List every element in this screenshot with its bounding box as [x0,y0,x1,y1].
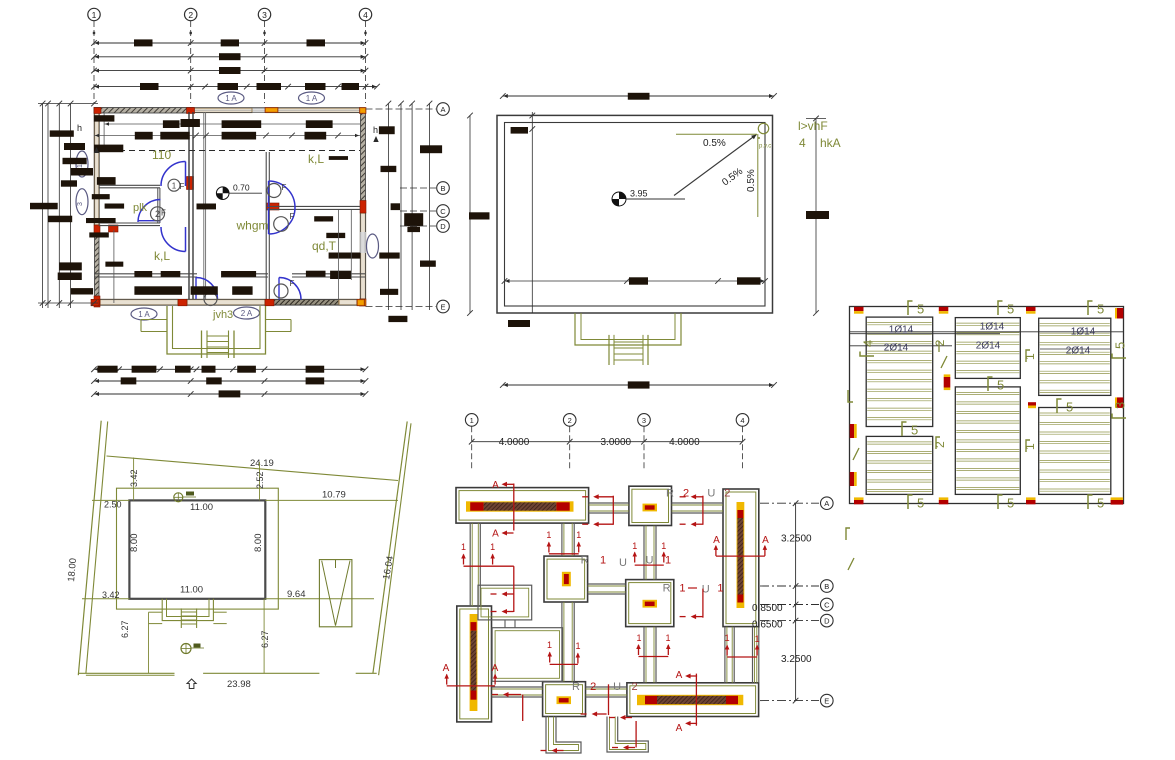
svg-text:1Ø14: 1Ø14 [889,325,914,336]
fnd dim line [472,441,743,443]
strip F1-F2 [589,502,629,504]
fnd grid bubble B [760,585,819,587]
red elbow arrows right of F1 [612,496,614,525]
footing F5 marker [643,600,658,608]
door arc bottom1 [196,278,218,300]
svg-text:U: U [619,557,627,569]
svg-text:16.04: 16.04 [381,555,396,580]
tail arrows [554,750,564,752]
svg-text:11.00: 11.00 [190,502,213,513]
plot boundary right [373,421,407,673]
fnd grid bubble 3 [638,414,651,427]
svg-text:1: 1 [576,530,581,540]
footing F2 marker [643,504,658,512]
arrow bottom mid [608,684,610,715]
svg-text:9.64: 9.64 [287,589,306,600]
svg-text:h: h [373,125,378,135]
interior wall y275 [94,273,197,275]
door arc room1 [161,162,186,187]
wc fixture 2 [267,184,281,198]
right wall window gap [360,232,366,253]
svg-text:2: 2 [188,10,193,20]
svg-text:2: 2 [590,681,596,693]
svg-text:R: R [663,583,671,595]
roof stair ladder [608,335,610,365]
svg-text:D: D [824,616,830,625]
strip F5-F8 [643,627,645,683]
svg-text:8.00: 8.00 [129,534,140,553]
svg-text:1: 1 [665,633,670,643]
svg-text:5: 5 [1007,496,1014,511]
strip F1-F6 [469,523,471,606]
bottom dimension rows [94,368,366,370]
interior dim vline x104 [103,112,105,150]
svg-text:B: B [440,184,445,193]
fnd grid bubble 1 [465,414,478,427]
svg-text:0.70: 0.70 [233,183,250,193]
svg-text:1: 1 [725,633,730,643]
svg-text:24.19: 24.19 [250,458,274,469]
right dim chain lines [387,103,389,310]
grid bubble C [400,210,436,212]
svg-text:3.2500: 3.2500 [781,654,812,665]
roof plan block [467,93,840,389]
svg-text:5: 5 [1097,302,1104,317]
svg-text:1: 1 [547,640,552,650]
roof slope vert line [757,134,759,217]
roof second dim line [531,112,533,313]
left dim blobs [50,130,74,136]
section tag 1A left [76,151,88,177]
label [5 #7 [988,377,993,391]
svg-text:5: 5 [1066,400,1073,415]
slab outer rect [850,307,1124,504]
site gate rect [319,560,352,627]
svg-text:C: C [440,207,446,216]
slab panels with rebar lines [866,317,933,426]
grid bubble D [400,225,436,227]
svg-text:2Ø14: 2Ø14 [884,343,909,354]
footing F7 pad [543,682,586,717]
svg-text:3: 3 [262,10,267,20]
roof pvc drain [758,123,768,133]
svg-text:1: 1 [600,555,606,567]
label 3 right rot [1112,402,1128,418]
svg-text:hkA: hkA [820,136,841,150]
north tick arrow right [373,136,378,142]
svg-text:2: 2 [155,209,160,219]
fnd grid bubble C [760,604,819,606]
grid bubbles 1-4 top [88,8,100,20]
footing F4 marker [562,572,571,587]
footing F5 pad [626,580,674,627]
site vert tick left [133,458,135,501]
svg-text:1: 1 [92,10,97,20]
slab column markers [854,307,864,311]
svg-text:2: 2 [568,416,572,425]
svg-text:2: 2 [933,339,947,346]
tail strip 1 [546,717,581,754]
footing F6 bar [470,614,478,711]
site dim line 10.79 [265,499,398,501]
site tree 1 [174,493,183,502]
rooms rect1 [478,585,532,620]
svg-text:A: A [492,480,499,491]
tail strip 2 [607,717,648,753]
interior dim vlines qdT [337,210,339,300]
interior dim blobs [94,115,115,121]
section tag K right wall [367,234,379,258]
site entry arrow [187,679,196,689]
left wall tan upper [95,112,100,225]
grid leader lines [93,21,95,103]
plot bottom lines [78,672,174,674]
left small-room wall y186 [99,184,160,186]
door arc room2 [161,227,186,252]
svg-text:2Ø14: 2Ø14 [976,341,1001,352]
svg-text:1: 1 [755,634,760,644]
strip F4-F5 [588,583,626,585]
arrow below R1U1 mid [702,589,704,618]
svg-text:2: 2 [632,681,638,693]
top wall tan segment [194,108,252,113]
section tag 1A bottom [131,308,157,320]
svg-text:1: 1 [490,542,495,552]
label [2 mid2 [936,437,940,449]
label 5 right rot [1112,342,1128,358]
door arc bottom2 [279,278,301,300]
left small-room wall x158 [157,188,159,223]
svg-text:11.00: 11.00 [180,585,203,596]
dashed axis line y150 [99,150,360,152]
partition thin x204 [203,112,205,299]
plot boundary 24.19 line [107,456,399,481]
foundation plan block [443,414,833,753]
svg-text:F: F [180,182,185,191]
site dim line 2.50 [92,499,129,501]
svg-text:1 A: 1 A [225,94,237,103]
svg-text:10.79: 10.79 [322,490,346,501]
strip F2-F5 [643,526,645,580]
svg-text:3: 3 [642,416,646,425]
strip F3-F8 a [724,627,726,683]
section tag 2A bottom [234,307,260,319]
label slash left [853,448,859,460]
left dim chain lines [42,103,44,308]
left wall hatched lower [95,236,100,296]
label [5 #1 [908,301,913,315]
footing F1 bar [466,501,574,511]
svg-text:5: 5 [1007,302,1014,317]
dimension rows top of floor plan [94,42,366,44]
strip F7-F8 [586,686,627,688]
bottom wall segments [100,300,178,306]
site porch [162,599,213,621]
svg-text:1: 1 [717,583,723,595]
wc fixture 4 [204,293,217,306]
interior dim line i3 [94,135,360,137]
svg-text:2Ø14: 2Ø14 [1066,346,1091,357]
svg-text:3.0000: 3.0000 [601,437,632,448]
fixture tag 2 circle [151,207,165,221]
svg-text:3.42: 3.42 [129,469,139,487]
label L left [848,390,853,402]
strip F4-F7 [561,602,563,682]
svg-text:3: 3 [1113,402,1128,409]
svg-text:1Ø14: 1Ø14 [980,322,1005,333]
label slash mid [941,356,947,368]
roof right dim line [815,118,817,313]
label [5 #4 [908,495,913,509]
svg-text:F: F [290,212,295,221]
svg-text:R: R [581,555,589,567]
porch outline [167,306,266,354]
svg-text:1: 1 [1023,443,1037,450]
roof left dim line [469,115,471,313]
svg-text:1: 1 [679,583,685,595]
right dim blobs [379,126,395,134]
fnd grid bubble 4 [736,414,749,427]
svg-text:1 A: 1 A [138,310,150,319]
svg-text:h: h [77,123,82,133]
svg-text:0.5%: 0.5% [720,166,745,188]
label [5 #2 [998,301,1003,315]
label [5 #3 [1088,301,1093,315]
rebar leader line partial [850,345,953,347]
svg-text:jvh3: jvh3 [212,309,233,321]
label bracket left low [846,528,850,540]
svg-text:1: 1 [77,164,84,168]
svg-text:5: 5 [911,423,918,438]
roof level symbol 3.95 [612,192,626,206]
site vert tick right [259,462,261,500]
label L1 col [1026,350,1030,362]
svg-text:A: A [440,105,445,114]
site tree 2 [181,644,191,654]
svg-text:R: R [572,681,580,693]
svg-text:110: 110 [152,148,171,162]
svg-text:A: A [676,723,683,734]
partition wall x190 [188,112,190,299]
partition wall x267 [265,152,267,299]
svg-text:8.00: 8.00 [253,534,264,553]
svg-text:E: E [824,696,829,705]
svg-text:R: R [666,488,674,500]
left small-room wall y224 [99,222,160,224]
red elbow arrows right of F2 [702,496,704,525]
level symbol 0.70 [216,187,229,200]
interior dim line i2 [104,123,190,125]
svg-text:4.0000: 4.0000 [499,437,530,448]
site plan block [66,421,411,690]
wc fixture 3 [274,217,289,232]
svg-text:6.27: 6.27 [260,630,270,648]
svg-text:0.5%: 0.5% [746,169,757,192]
label [5 #5 [998,495,1003,509]
svg-text:k,L: k,L [154,249,170,263]
grid centerline dots [93,32,95,34]
site offset rect [117,488,279,609]
svg-text:F: F [161,209,166,218]
interior dim vline x114 [113,230,115,303]
label [1 col2 [1026,440,1030,452]
grid bubble E [366,306,437,308]
svg-text:2: 2 [683,488,689,500]
grid bubble B [400,187,436,189]
svg-text:2.52: 2.52 [255,471,265,489]
svg-text:1: 1 [632,541,637,551]
grid bubble A [366,108,437,110]
svg-text:plk: plk [133,202,148,214]
svg-text:3.42: 3.42 [102,590,120,600]
strip F2-F3 [672,502,724,504]
site house rect [129,500,265,598]
svg-text:1 A: 1 A [306,94,318,103]
svg-text:A: A [676,670,683,681]
svg-text:1: 1 [665,555,671,567]
svg-text:F: F [290,279,295,288]
svg-text:whgm: whgm [236,219,269,233]
svg-text:A: A [824,499,829,508]
footing F8 bar [637,695,743,705]
footing F4 pad R1 [544,556,588,602]
svg-text:0.5%: 0.5% [703,138,726,149]
svg-text:3: 3 [77,202,84,206]
site stair ladder [180,608,182,628]
svg-text:5: 5 [1097,496,1104,511]
fnd grid bubble D [760,620,819,622]
svg-text:2 A: 2 A [241,309,253,318]
svg-text:E: E [440,302,445,311]
svg-text:1: 1 [546,530,551,540]
label [5 #9 [902,422,907,436]
stair ladder [201,331,203,359]
rebar leader line full [850,331,1124,333]
site dim line 3.42b [82,598,129,600]
top wall window lines [252,108,266,110]
section tag 3A left [76,189,88,215]
svg-text:1: 1 [575,641,580,651]
wc fixture 1 [168,179,180,191]
svg-text:3.2500: 3.2500 [781,534,812,545]
column markers floor plan [94,108,101,114]
svg-text:4: 4 [861,340,876,347]
label [5 #8 [1057,399,1062,413]
svg-text:4.0000: 4.0000 [669,437,700,448]
svg-text:5: 5 [1113,342,1128,349]
svg-text:A: A [492,663,499,674]
roof outer rect [497,115,773,313]
section tag 1-A top [218,92,244,104]
svg-text:4: 4 [799,136,806,150]
footing F3 bar [737,502,745,608]
svg-text:23.98: 23.98 [227,679,251,690]
svg-text:2: 2 [724,488,730,500]
strip F3-F8 b [752,627,754,683]
svg-text:18.00: 18.00 [66,558,79,583]
svg-text:U: U [707,488,715,500]
footing F1 outline [456,488,589,523]
svg-text:1: 1 [661,541,666,551]
svg-text:4: 4 [740,416,744,425]
label 4 left rot [860,340,876,356]
svg-text:0.8500: 0.8500 [752,603,783,614]
roof slope horiz line [676,133,757,135]
fnd grid bubble 2 [563,414,576,427]
porch side wings [141,319,167,321]
label [5 #6 [1088,495,1093,509]
footing F2 pad [629,486,672,525]
svg-text:1: 1 [461,542,466,552]
svg-text:F: F [282,183,287,192]
svg-text:qd,T: qd,T [312,239,337,253]
svg-text:A: A [492,529,499,540]
double door whgm [269,181,296,208]
footing F6 left strip [457,606,492,722]
svg-text:2: 2 [933,441,947,448]
footing F7 marker [557,696,572,704]
slab reinforcement block [846,301,1128,570]
strip F1-F4 [561,523,563,556]
interior wall y208 [267,205,360,207]
svg-text:1: 1 [636,633,641,643]
svg-text:B: B [824,582,829,591]
svg-text:5: 5 [917,496,924,511]
plot boundary left [78,421,101,676]
svg-text:2.50: 2.50 [104,500,122,510]
svg-text:0.6500: 0.6500 [752,620,783,631]
door arc plk room [138,200,161,223]
right wall tan lower [361,213,366,299]
footing F8 bottom strip [627,683,759,717]
svg-text:3.95: 3.95 [630,189,648,199]
strip F6-F7 [492,686,543,688]
svg-text:A: A [762,535,769,546]
roof slope diagonal [674,135,757,196]
footing F3 right strip [723,489,759,627]
fnd grid bubble A [760,502,819,504]
north tick arrow left [94,147,99,153]
roof porch outline [575,313,681,345]
svg-text:A: A [713,535,720,546]
svg-text:1: 1 [470,416,474,425]
svg-text:6.27: 6.27 [120,620,130,638]
floor plan block [30,8,449,397]
site dim line 9.64 [265,598,374,600]
svg-text:p.v.c: p.v.c [759,144,771,150]
svg-text:D: D [440,222,446,231]
svg-text:k,L: k,L [308,152,324,166]
svg-text:1: 1 [172,182,177,191]
svg-text:1: 1 [1023,353,1037,360]
fnd grid bubble E [760,700,819,702]
rooms rect2 [492,628,562,682]
fnd right dim line [795,503,797,700]
svg-text:1Ø14: 1Ø14 [1071,327,1096,338]
roof interior dim line [505,280,766,282]
top wall hatched segment [94,108,194,114]
arrow left of F7 [505,694,521,696]
svg-text:5: 5 [997,378,1004,393]
roof top dim line [503,95,774,97]
svg-text:4: 4 [363,10,368,20]
roof bottom dim line [503,384,774,386]
site vline 6.27 right [263,599,265,674]
svg-text:C: C [824,600,830,609]
wc fixture 5 [274,284,288,298]
svg-text:5: 5 [917,302,924,317]
roof inner rect [505,123,766,307]
